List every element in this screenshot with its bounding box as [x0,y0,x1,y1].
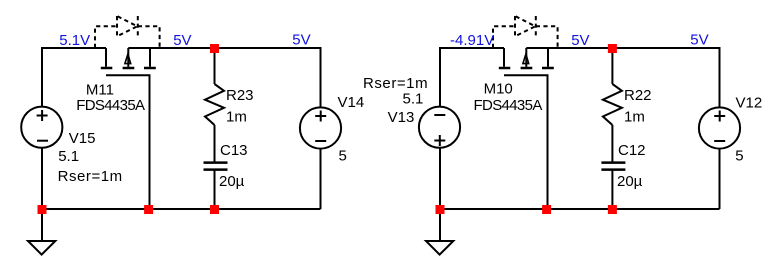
svg-text:-4.91V: -4.91V [450,32,494,49]
svg-text:5: 5 [339,148,347,165]
svg-text:R23: R23 [226,87,254,104]
wire R22 bottom to C12 top [611,125,613,162]
svg-text:5.1V: 5.1V [59,32,90,49]
transistor M11 [101,48,156,68]
svg-text:5V: 5V [690,32,708,49]
node square rail V13 [436,205,445,214]
wire M10 gate to rail [504,75,548,209]
svg-text:1m: 1m [226,109,247,126]
ground right [426,209,453,255]
wire C13 bottom to rail [214,170,216,209]
node square rail gate M10 [542,205,551,214]
body diode of M10 (dashed) [493,16,558,48]
wire V15 top to M11 source [42,48,106,107]
svg-text:5: 5 [735,148,743,165]
capacitor C12 [601,163,625,170]
svg-text:M10: M10 [484,81,513,98]
node square top right circuit [608,44,617,53]
resistor R22 [603,84,622,125]
voltage source V15 [21,107,62,148]
transistor M10 [499,48,554,68]
voltage source V12 [699,107,740,148]
voltage source V14 [300,107,341,148]
svg-text:5V: 5V [571,32,589,49]
wire M11 drain to V14 top [128,48,320,107]
wire V12 bottom [719,149,721,209]
wire C12 bottom to rail [611,170,613,209]
svg-text:V14: V14 [338,94,365,111]
svg-text:FDS4435A: FDS4435A [76,97,145,114]
svg-text:C12: C12 [618,142,646,159]
voltage source V13 (inverted) [419,107,460,148]
svg-text:R22: R22 [624,87,652,104]
wire node to R22 top [611,48,613,84]
wire V13 bottom [439,148,441,209]
wire V15 bottom [41,148,43,209]
resistor R23 [205,84,224,125]
svg-text:V12: V12 [736,95,763,112]
svg-text:FDS4435A: FDS4435A [474,97,543,114]
svg-text:V13: V13 [388,109,415,126]
wire V14 bottom [320,149,322,209]
wire bottom rail left circuit [42,208,321,210]
wire M11 gate to rail [106,75,150,209]
svg-text:Rser=1m: Rser=1m [363,75,428,92]
svg-text:M11: M11 [86,81,114,98]
svg-text:5.1: 5.1 [58,148,79,165]
svg-text:5V: 5V [292,32,310,49]
node square top left circuit [210,44,219,53]
svg-text:C13: C13 [220,142,248,159]
wire node to R23 top [214,48,216,84]
capacitor C13 [204,163,228,170]
svg-text:V15: V15 [69,130,96,147]
wire M10 drain to V12 top [526,48,719,107]
svg-text:5.1: 5.1 [403,91,424,108]
wire bottom rail right circuit [440,208,720,210]
svg-text:Rser=1m: Rser=1m [58,168,123,185]
ground left [28,209,55,255]
svg-text:20µ: 20µ [617,173,643,190]
node square rail gate M11 [144,205,153,214]
svg-text:5V: 5V [173,32,191,49]
svg-text:1m: 1m [624,109,645,126]
node square rail C12 [608,205,617,214]
body diode of M11 (dashed) [95,16,160,48]
wire V13 top to M10 source [440,48,504,107]
node square rail V15 [38,205,47,214]
node square rail C13 [210,205,219,214]
wire R23 bottom to C13 top [214,125,216,162]
svg-text:20µ: 20µ [219,173,245,190]
